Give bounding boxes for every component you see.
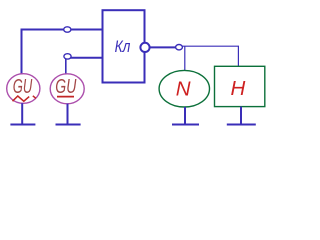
svg-text:GU: GU: [13, 75, 33, 98]
ground bar under N: [172, 124, 199, 126]
wire: thin horizontal bus to H: [182, 45, 239, 47]
wire: drop to N: [184, 46, 186, 71]
node terminal circle on wire 2: [64, 54, 71, 59]
switch block Кл: [103, 10, 145, 82]
generator G1 (AC) body: [7, 74, 40, 104]
node terminal circle on wire 1: [64, 27, 71, 32]
wire: generator G2 top lead vertical: [65, 59, 67, 75]
svg-text:H: H: [231, 77, 246, 100]
wire: generator G1 top lead vertical: [21, 29, 23, 75]
wire: top horizontal from G1 to switch input 1: [21, 29, 104, 31]
wire: N bottom lead: [184, 107, 186, 124]
wire: output to node terminal: [150, 46, 176, 48]
switch output terminal circle: [140, 43, 149, 52]
ground bar under H: [227, 124, 256, 126]
svg-text:Кл: Кл: [115, 38, 131, 56]
generator G2 (DC) body: [50, 74, 84, 104]
node terminal circle (right): [176, 45, 183, 50]
wire: G1 bottom lead: [21, 103, 23, 124]
ground bar under G2: [56, 124, 81, 126]
wire: horizontal from terminal 2 to switch input 2: [67, 57, 104, 59]
DC underline mark: [57, 96, 74, 98]
AC sine mark under GU: [13, 96, 30, 101]
load H body (rect): [215, 66, 265, 106]
svg-text:GU: GU: [55, 75, 76, 98]
load N body (ellipse): [159, 70, 209, 107]
wire: H bottom lead: [240, 107, 242, 124]
tick after sine mark: [33, 96, 36, 99]
wire: drop to H: [237, 46, 239, 66]
ground bar under G1: [10, 124, 35, 126]
svg-text:N: N: [176, 78, 191, 101]
wire: G2 bottom lead: [67, 104, 69, 124]
